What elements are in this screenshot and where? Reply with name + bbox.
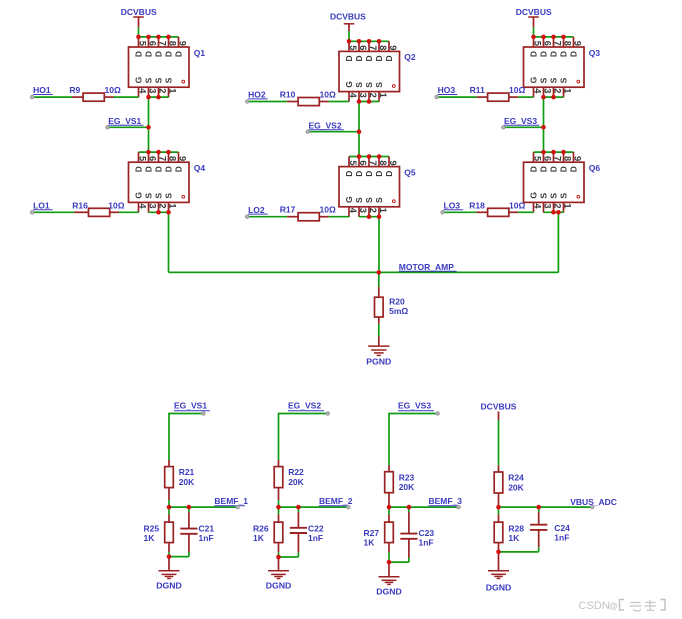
svg-text:S: S (153, 193, 163, 199)
wire Q2 source pins (359, 101, 379, 103)
svg-text:D: D (528, 51, 538, 57)
transistor Q5 pin 1 (S) (378, 207, 380, 217)
node EG_VS3 open end (502, 126, 505, 129)
wire MOTOR_AMP to R20 (378, 272, 380, 287)
wire VBUS_ADC (499, 506, 593, 508)
svg-text:10Ω: 10Ω (105, 85, 121, 95)
svg-text:R20: R20 (389, 296, 405, 306)
svg-text:EG_VS2: EG_VS2 (309, 120, 342, 130)
svg-text:C21: C21 (199, 523, 215, 533)
svg-text:S: S (143, 77, 153, 83)
wire EG_VS3 input (389, 413, 438, 415)
svg-text:D: D (558, 51, 568, 57)
transistor Q4 pin 4 (G) (138, 202, 140, 212)
svg-text:D: D (374, 171, 384, 177)
transistor Q1 pin 7 (D) (158, 37, 160, 47)
svg-text:D: D (133, 51, 143, 57)
svg-text:1: 1 (563, 88, 573, 93)
junction node BEMF_2 at R26 (276, 505, 281, 510)
svg-text:4: 4 (348, 208, 358, 214)
svg-text:9: 9 (388, 160, 398, 165)
svg-text:6: 6 (148, 156, 158, 161)
transistor Q4 pin 2 (S) (158, 202, 160, 212)
transistor Q2 pin 9 (D) (388, 41, 390, 51)
wire EG_VS2 input (279, 413, 328, 415)
svg-text:D: D (364, 171, 374, 177)
junction node Q1 pin 6 (146, 35, 151, 40)
node HO3 open end (435, 95, 438, 98)
wire R18 to Q6 gate (518, 211, 533, 213)
transistor Q6 pin 4 (G) (533, 202, 535, 212)
junction node Q5 pin 8 (377, 154, 382, 159)
svg-text:DGND: DGND (266, 581, 292, 591)
transistor Q5 body (339, 167, 400, 207)
transistor Q6 pin 9 (D) (573, 152, 575, 162)
wire BEMF_3 (389, 506, 459, 508)
svg-text:Q2: Q2 (404, 52, 416, 62)
watermark CJK glyphs (620, 600, 625, 611)
resistor R11 (477, 96, 488, 98)
resistor R23 (388, 465, 390, 472)
svg-text:R27: R27 (364, 528, 380, 538)
transistor Q3 pin 2 (S) (553, 87, 555, 97)
svg-text:3: 3 (358, 93, 368, 98)
svg-text:S: S (538, 77, 548, 83)
transistor Q2 pin 7 (D) (368, 41, 370, 51)
wire BEMF_2 (279, 506, 349, 508)
wire Q1 source pins (149, 96, 169, 98)
svg-text:1: 1 (168, 203, 178, 208)
node EG_VS3 open end (436, 412, 439, 415)
svg-text:C22: C22 (308, 523, 324, 533)
svg-text:4: 4 (533, 203, 543, 209)
wire R17 to Q5 gate (329, 216, 349, 218)
svg-text:D: D (568, 166, 578, 172)
svg-text:7: 7 (553, 156, 563, 161)
transistor Q6 pin 3 (S) (543, 202, 545, 212)
svg-text:3: 3 (358, 208, 368, 213)
wire Q6 source pins (544, 211, 564, 213)
svg-text:7: 7 (158, 156, 168, 161)
svg-text:8: 8 (168, 156, 178, 161)
Q1 body circle marker (182, 80, 185, 83)
transistor Q2 pin 5 (D) (348, 41, 350, 51)
svg-text:D: D (384, 171, 394, 177)
capacitor C22 (297, 507, 299, 512)
svg-text:D: D (548, 51, 558, 57)
transistor Q1 pin 5 (D) (138, 37, 140, 47)
transistor Q2 body (339, 51, 400, 91)
wire drain bus of Q5 (349, 156, 389, 158)
transistor Q4 pin 7 (D) (158, 152, 160, 162)
Q3 body circle marker (577, 80, 580, 83)
wire drain bus of Q3 (534, 36, 574, 38)
resistor R27 (388, 507, 390, 514)
ground DGND (R26) (278, 557, 280, 571)
svg-text:6: 6 (358, 160, 368, 165)
junction node BEMF_3 at R27 (387, 505, 392, 510)
transistor Q3 pin 5 (D) (533, 37, 535, 47)
junction node Q2 pin 7 (367, 39, 372, 44)
resistor R24 (498, 465, 500, 472)
svg-text:D: D (528, 166, 538, 172)
svg-text:D: D (143, 166, 153, 172)
svg-text:2: 2 (158, 203, 168, 208)
svg-text:20K: 20K (288, 477, 304, 487)
svg-text:R22: R22 (288, 467, 304, 477)
junction node BEMF_3 at C23 (407, 505, 412, 510)
junction node EG_VS2 (357, 129, 362, 134)
junction node Q3 pin3 (541, 95, 546, 100)
junction node Q1 pin2 (156, 95, 161, 100)
transistor Q4 pin 1 (S) (168, 202, 170, 212)
wire R9 to Q1 gate (114, 96, 139, 98)
svg-text:5: 5 (138, 156, 148, 161)
ground DGND (R27) (388, 562, 390, 577)
junction node Q4 pin 8 (166, 150, 171, 155)
transistor Q2 pin 1 (S) (378, 92, 380, 102)
transistor Q1 pin 6 (D) (148, 37, 150, 47)
resistor R10 (287, 101, 298, 103)
junction node Q5 pin1 (377, 214, 382, 219)
wire EG_VS1 (108, 126, 149, 128)
svg-text:3: 3 (148, 88, 158, 93)
svg-text:2: 2 (553, 203, 563, 208)
junction node Q3 pin 7 (551, 35, 556, 40)
svg-text:R24: R24 (508, 473, 524, 483)
node EG_VS2 open end (306, 130, 309, 133)
wire HO1 to R9 (32, 96, 72, 98)
transistor Q2 pin 4 (G) (348, 92, 350, 102)
junction node EG_VS3 (541, 125, 546, 130)
svg-text:10Ω: 10Ω (108, 200, 124, 210)
svg-text:D: D (538, 51, 548, 57)
svg-text:1nF: 1nF (419, 538, 434, 548)
svg-text:D: D (354, 171, 364, 177)
svg-text:9: 9 (178, 156, 188, 161)
transistor Q5 pin 2 (S) (368, 207, 370, 217)
transistor Q4 pin 5 (D) (138, 152, 140, 162)
wire phase node Q1->Q4 (148, 97, 150, 152)
junction node Q1 pin 5 (136, 35, 141, 40)
svg-text:6: 6 (543, 41, 553, 46)
junction node Q2 pin 8 (377, 39, 382, 44)
wire Q3 source pins (544, 96, 564, 98)
svg-text:6: 6 (148, 41, 158, 46)
svg-text:1K: 1K (508, 533, 520, 543)
junction node Q5 pin 7 (367, 154, 372, 159)
svg-text:G: G (133, 192, 143, 199)
svg-text:8: 8 (378, 160, 388, 165)
junction node Q3 pin 6 (541, 35, 546, 40)
wire LO1 to R16 (32, 211, 74, 213)
ground DGND (R28) (498, 552, 500, 571)
svg-text:S: S (143, 193, 153, 199)
svg-text:Q1: Q1 (194, 48, 206, 58)
wire Q6 to MOTOR_AMP (557, 212, 559, 272)
node HO1 open end (30, 95, 33, 98)
svg-text:9: 9 (573, 156, 583, 161)
svg-text:10Ω: 10Ω (509, 200, 525, 210)
svg-text:S: S (538, 193, 548, 199)
node HO2 open end (245, 100, 248, 103)
node BEMF_2 open end (347, 505, 350, 508)
svg-text:BEMF_3: BEMF_3 (429, 496, 463, 506)
svg-text:3: 3 (543, 203, 553, 208)
transistor Q1 pin 1 (S) (168, 87, 170, 97)
svg-text:20K: 20K (179, 477, 195, 487)
svg-text:D: D (374, 55, 384, 61)
transistor Q3 pin 6 (D) (543, 37, 545, 47)
svg-text:D: D (163, 51, 173, 57)
transistor Q5 pin 6 (D) (358, 157, 360, 167)
svg-text:S: S (558, 193, 568, 199)
svg-text:S: S (354, 197, 364, 203)
junction node Q2 pin2 (367, 99, 372, 104)
transistor Q1 pin 8 (D) (168, 37, 170, 47)
junction node Q4 pin 7 (156, 150, 161, 155)
svg-text:HO3: HO3 (438, 85, 456, 95)
wire BEMF_1 (169, 506, 238, 508)
node BEMF_1 open end (236, 505, 239, 508)
junction node MOTOR_AMP / R20 (377, 270, 382, 275)
transistor Q3 pin 3 (S) (543, 87, 545, 97)
resistor R18 (477, 211, 488, 213)
node EG_VS1 open end (202, 412, 205, 415)
svg-text:D: D (558, 166, 568, 172)
svg-text:1: 1 (378, 208, 388, 213)
svg-text:7: 7 (368, 45, 378, 50)
junction node Q6 pin 7 (551, 150, 556, 155)
transistor Q5 pin 5 (D) (348, 157, 350, 167)
svg-text:6: 6 (543, 156, 553, 161)
ground DGND (R25) (168, 557, 170, 571)
transistor Q5 pin 9 (D) (388, 157, 390, 167)
capacitor C23 (408, 507, 410, 512)
svg-text:1K: 1K (144, 533, 156, 543)
svg-text:S: S (163, 193, 173, 199)
svg-text:1: 1 (378, 93, 388, 98)
transistor Q6 pin 7 (D) (553, 152, 555, 162)
junction node Q1 pin 7 (156, 35, 161, 40)
junction node BEMF_1 at R25 (167, 505, 172, 510)
svg-text:R16: R16 (72, 200, 88, 210)
svg-text:HO1: HO1 (33, 85, 51, 95)
capacitor C24 (538, 507, 540, 512)
svg-text:4: 4 (138, 88, 148, 94)
wire Q4 source pins (149, 211, 169, 213)
node EG_VS1 open end (106, 126, 109, 129)
svg-text:9: 9 (388, 45, 398, 50)
ground PGND (378, 336, 380, 346)
junction node VBUS_ADC at C24 (536, 505, 541, 510)
junction node Q3 pin2 (551, 95, 556, 100)
wire R10 to Q2 gate (329, 101, 349, 103)
transistor Q6 pin 8 (D) (563, 152, 565, 162)
resistor R25 (168, 507, 170, 514)
wire DCVBUS input (498, 412, 500, 421)
svg-text:5: 5 (348, 45, 358, 50)
wire MOTOR_AMP bus (169, 271, 559, 273)
svg-text:6: 6 (358, 45, 368, 50)
junction node Q6 pin 6 (541, 150, 546, 155)
svg-text:D: D (133, 166, 143, 172)
transistor Q3 pin 1 (S) (563, 87, 565, 97)
svg-text:DCVBUS: DCVBUS (481, 401, 517, 411)
wire R28 to C24 bottom (499, 551, 539, 553)
junction node Q6 pin2 (551, 210, 556, 215)
resistor R17 (287, 216, 298, 218)
transistor Q1 pin 3 (S) (148, 87, 150, 97)
node LO3 open end (441, 211, 444, 214)
svg-text:R10: R10 (280, 90, 296, 100)
svg-text:LO2: LO2 (248, 205, 265, 215)
svg-text:DGND: DGND (486, 582, 512, 592)
transistor Q5 pin 7 (D) (368, 157, 370, 167)
svg-text:D: D (344, 55, 354, 61)
Q4 body circle marker (182, 195, 185, 198)
svg-text:G: G (133, 76, 143, 83)
junction node R28 / ground (496, 550, 501, 555)
svg-text:7: 7 (158, 41, 168, 46)
node VBUS_ADC open end (591, 505, 594, 508)
svg-text:5: 5 (533, 41, 543, 46)
svg-text:G: G (344, 81, 354, 88)
svg-text:R21: R21 (179, 467, 195, 477)
transistor Q1 pin 4 (G) (138, 87, 140, 97)
transistor Q6 pin 5 (D) (533, 152, 535, 162)
svg-text:DCVBUS: DCVBUS (330, 12, 366, 22)
svg-text:G: G (344, 196, 354, 203)
wire Q5 to MOTOR_AMP (378, 217, 380, 273)
wire EG_VS2 (308, 131, 359, 133)
capacitor C21 (188, 507, 190, 512)
svg-text:D: D (344, 171, 354, 177)
transistor Q6 pin 1 (S) (563, 202, 565, 212)
node LO1 open end (30, 211, 33, 214)
svg-text:Q4: Q4 (194, 163, 206, 173)
junction node Q1 pin 8 (166, 35, 171, 40)
svg-text:D: D (163, 166, 173, 172)
svg-text:R18: R18 (469, 200, 485, 210)
transistor Q1 pin 2 (S) (158, 87, 160, 97)
junction node Q4 pin1 (166, 210, 171, 215)
wire LO2 to R17 (247, 216, 287, 218)
svg-text:S: S (364, 82, 374, 88)
svg-text:D: D (153, 166, 163, 172)
transistor Q2 pin 3 (S) (358, 92, 360, 102)
svg-text:S: S (153, 77, 163, 83)
svg-text:20K: 20K (508, 482, 524, 492)
transistor Q5 pin 4 (G) (348, 207, 350, 217)
svg-text:D: D (538, 166, 548, 172)
svg-text:HO2: HO2 (248, 90, 266, 100)
svg-text:5: 5 (533, 156, 543, 161)
svg-text:8: 8 (168, 41, 178, 46)
svg-text:1nF: 1nF (554, 533, 569, 543)
transistor Q2 pin 8 (D) (378, 41, 380, 51)
svg-text:G: G (528, 76, 538, 83)
svg-text:1nF: 1nF (308, 533, 323, 543)
transistor Q4 pin 9 (D) (178, 152, 180, 162)
svg-text:C24: C24 (554, 523, 570, 533)
svg-text:1K: 1K (253, 533, 265, 543)
svg-text:Q3: Q3 (589, 48, 601, 58)
svg-text:D: D (173, 51, 183, 57)
svg-text:5: 5 (138, 41, 148, 46)
svg-text:D: D (548, 166, 558, 172)
svg-text:D: D (143, 51, 153, 57)
svg-text:5: 5 (348, 160, 358, 165)
svg-text:1nF: 1nF (199, 533, 214, 543)
svg-text:9: 9 (573, 41, 583, 46)
transistor Q4 body (129, 162, 190, 202)
svg-text:D: D (354, 55, 364, 61)
svg-text:DCVBUS: DCVBUS (516, 7, 552, 17)
wire HO3 to R11 (437, 96, 477, 98)
svg-text:8: 8 (563, 41, 573, 46)
junction node Q2 pin 6 (357, 39, 362, 44)
svg-text:2: 2 (368, 93, 378, 98)
junction node R27 / ground (387, 560, 392, 565)
svg-text:S: S (163, 77, 173, 83)
wire Q4 to MOTOR_AMP (168, 212, 170, 272)
svg-text:20K: 20K (399, 482, 415, 492)
junction node Q6 descent (556, 210, 561, 215)
Q2 body circle marker (392, 85, 395, 88)
wire drain bus of Q1 (139, 36, 179, 38)
svg-text:7: 7 (368, 160, 378, 165)
svg-text:S: S (548, 193, 558, 199)
transistor Q5 pin 3 (S) (358, 207, 360, 217)
svg-text:MOTOR_AMP: MOTOR_AMP (399, 262, 454, 272)
svg-text:Q6: Q6 (589, 163, 601, 173)
junction node VBUS_ADC at R28 (496, 505, 501, 510)
junction node Q6 pin 8 (561, 150, 566, 155)
svg-text:@: @ (609, 601, 618, 611)
junction node R25 / ground (167, 554, 172, 559)
Q6 body circle marker (577, 195, 580, 198)
junction node BEMF_2 at C22 (296, 505, 301, 510)
resistor R21 (168, 460, 170, 467)
svg-text:EG_VS3: EG_VS3 (504, 116, 537, 126)
svg-text:S: S (374, 197, 384, 203)
svg-text:DGND: DGND (376, 586, 402, 596)
wire EG_VS1 input (169, 413, 204, 415)
svg-text:S: S (558, 77, 568, 83)
svg-text:PGND: PGND (366, 357, 391, 367)
transistor Q1 pin 9 (D) (178, 37, 180, 47)
transistor Q3 pin 9 (D) (573, 37, 575, 47)
svg-text:1: 1 (563, 203, 573, 208)
transistor Q3 pin 4 (G) (533, 87, 535, 97)
svg-text:S: S (364, 197, 374, 203)
node LO2 open end (245, 215, 248, 218)
svg-text:EG_VS3: EG_VS3 (398, 401, 431, 411)
svg-text:C23: C23 (419, 528, 435, 538)
transistor Q4 pin 3 (S) (148, 202, 150, 212)
node BEMF_3 open end (457, 505, 460, 508)
svg-text:3: 3 (543, 88, 553, 93)
resistor R26 (278, 507, 280, 514)
svg-text:S: S (354, 82, 364, 88)
wire HO2 to R10 (247, 101, 287, 103)
svg-text:CSDN: CSDN (579, 600, 610, 612)
svg-text:3: 3 (148, 203, 158, 208)
junction node Q5 pin2 (367, 214, 372, 219)
transistor Q5 pin 8 (D) (378, 157, 380, 167)
junction node Q1 pin3 (146, 95, 151, 100)
